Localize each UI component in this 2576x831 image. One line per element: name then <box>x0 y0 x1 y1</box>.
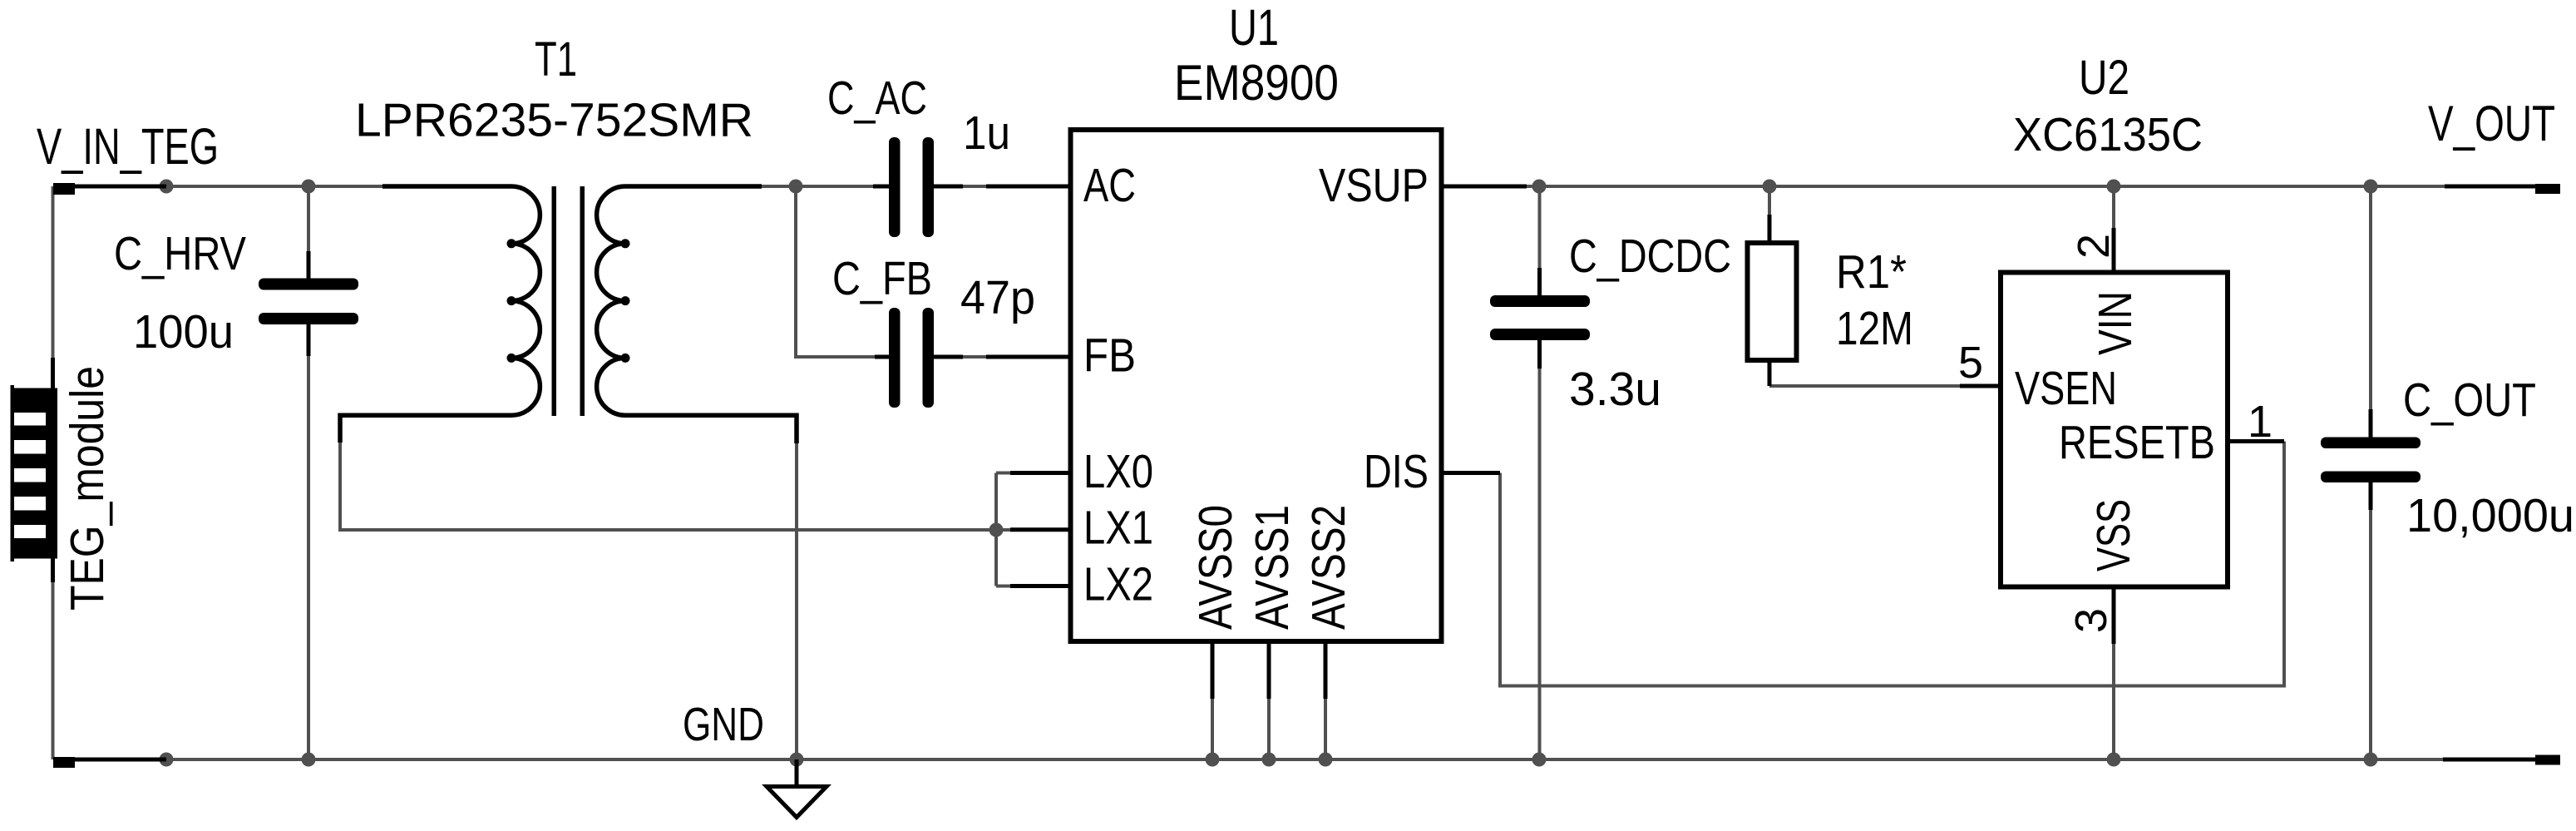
junction dots top rail <box>160 180 2378 194</box>
svg-text:FB: FB <box>1083 329 1136 383</box>
U2 pin VSEN, pin number 5 <box>1958 338 2117 415</box>
T1 primary winding <box>340 186 540 443</box>
U1 pin AC <box>986 159 1136 212</box>
wire: C_AC right lead gap <box>963 185 988 188</box>
wire: bottom rail GND net <box>166 758 2443 761</box>
label 1u <box>963 106 1010 160</box>
wire: T1 secondary bottom to GND rail <box>795 443 798 759</box>
svg-text:3.3u: 3.3u <box>1569 363 1661 416</box>
svg-text:C_DCDC: C_DCDC <box>1569 230 1731 283</box>
svg-text:T1: T1 <box>535 32 577 87</box>
svg-text:3: 3 <box>2066 608 2116 633</box>
svg-text:47p: 47p <box>960 271 1035 324</box>
wire: left vertical from V_IN_TEG to TEG module <box>52 186 55 759</box>
capacitor C_HRV <box>259 251 358 356</box>
U1 pin AVSS1 <box>1246 505 1299 699</box>
label T1 <box>535 32 577 87</box>
label TEG_module <box>61 366 114 611</box>
wire: VIN vertical from top rail <box>2112 186 2115 228</box>
wire: DIS to RESETB routing <box>1500 442 2284 686</box>
label XC6135C <box>2013 108 2203 161</box>
transformer T1 <box>340 186 797 443</box>
label C_DCDC <box>1569 230 1731 283</box>
label U2 <box>2079 51 2129 105</box>
svg-text:100u: 100u <box>133 305 234 359</box>
wire: AVSS0 AVSS1 AVSS2 to GND rail <box>1212 699 1325 759</box>
TEG module PS1 symbol <box>11 358 58 582</box>
wire: C_OUT vertical <box>2369 186 2372 759</box>
svg-text:LX0: LX0 <box>1083 445 1153 498</box>
wire: node AC coupling, top junction down to FB <box>796 186 988 357</box>
capacitor C_OUT <box>2321 409 2421 510</box>
svg-text:C_HRV: C_HRV <box>114 227 246 280</box>
svg-text:2: 2 <box>2069 234 2119 259</box>
U1 pin AVSS0 <box>1189 505 1242 699</box>
wire: R1 top lead <box>1768 186 1771 216</box>
wire: T1 primary bottom to LX bus <box>340 443 996 530</box>
voltage detector U2 body <box>2001 273 2228 587</box>
label C_OUT <box>2403 373 2536 427</box>
junction dot LX bus <box>989 523 1004 537</box>
svg-text:R1*: R1* <box>1836 245 1907 299</box>
U2 pin VSS, pin number 3 <box>2066 499 2140 644</box>
label GND <box>683 698 764 751</box>
capacitor C_AC <box>873 137 963 237</box>
label EM8900 <box>1174 55 1339 111</box>
T1 secondary winding <box>597 186 797 443</box>
label U1 <box>1229 0 1279 56</box>
U2 pin RESETB, pin number 1 <box>2059 397 2284 469</box>
wire: LX0-LX1-LX2 bus <box>996 473 1012 586</box>
label 12M <box>1836 302 1913 355</box>
T1 core <box>552 186 585 416</box>
svg-text:U2: U2 <box>2079 51 2129 105</box>
label 100u <box>133 305 234 359</box>
capacitor C_FB <box>875 308 963 408</box>
wire: R1 bottom to VSEN <box>1769 384 1960 388</box>
wire: C_DCDC vertical <box>1538 186 1542 759</box>
U1 pin LX0 <box>1010 445 1153 498</box>
svg-text:TEG_module: TEG_module <box>61 366 114 611</box>
label V_IN_TEG <box>37 118 219 175</box>
svg-text:XC6135C: XC6135C <box>2013 108 2203 161</box>
op-amp U1 body <box>1071 130 1442 641</box>
label 47p <box>960 271 1035 324</box>
svg-text:10,000u: 10,000u <box>2406 489 2574 542</box>
svg-text:GND: GND <box>683 698 764 751</box>
label C_HRV <box>114 227 246 280</box>
U1 pin LX2 <box>1010 558 1153 611</box>
svg-text:12M: 12M <box>1836 302 1913 355</box>
U1 pin AVSS2 <box>1302 505 1355 699</box>
svg-text:AC: AC <box>1083 159 1136 212</box>
svg-text:VSEN: VSEN <box>2015 362 2117 415</box>
svg-text:C_FB: C_FB <box>832 252 932 305</box>
svg-text:DIS: DIS <box>1364 445 1429 498</box>
svg-text:RESETB: RESETB <box>2059 416 2215 469</box>
U2 pin VIN, pin number 2 <box>2069 228 2142 355</box>
svg-text:U1: U1 <box>1229 0 1279 56</box>
junction dots bottom rail <box>160 753 2378 767</box>
label 10,000u <box>2406 489 2574 542</box>
wire: C_HRV vertical <box>307 186 310 759</box>
node V_OUT: right end bar <box>2443 184 2560 765</box>
resistor R1 <box>1748 215 1797 386</box>
ground symbol <box>767 759 827 818</box>
svg-text:VSS: VSS <box>2087 499 2140 571</box>
U1 pin FB <box>986 329 1136 383</box>
label LPR6235-752SMR <box>355 94 753 147</box>
svg-text:V_OUT: V_OUT <box>2428 96 2555 151</box>
label R1* <box>1836 245 1907 299</box>
svg-text:LX2: LX2 <box>1083 558 1153 611</box>
wire: VSS to GND rail <box>2112 644 2115 759</box>
U1 pin DIS <box>1364 445 1500 498</box>
node V_IN_TEG: left end bars and black leads <box>53 183 166 768</box>
svg-text:C_AC: C_AC <box>827 72 927 125</box>
svg-text:VIN: VIN <box>2089 291 2142 355</box>
U1 pin LX1 <box>1010 502 1153 555</box>
svg-text:VSUP: VSUP <box>1319 159 1429 212</box>
svg-text:AVSS2: AVSS2 <box>1302 505 1355 630</box>
wire: VSUP to V_OUT top rail <box>1527 185 2445 188</box>
label C_FB <box>832 252 932 305</box>
svg-text:EM8900: EM8900 <box>1174 55 1339 111</box>
svg-text:5: 5 <box>1958 338 1983 388</box>
svg-text:LX1: LX1 <box>1083 502 1153 555</box>
wire: top rail V_IN_TEG net <box>166 185 873 188</box>
svg-text:1u: 1u <box>963 106 1010 160</box>
svg-text:LPR6235-752SMR: LPR6235-752SMR <box>355 94 753 147</box>
label 3.3u <box>1569 363 1661 416</box>
svg-text:1: 1 <box>2248 397 2273 447</box>
label V_OUT <box>2428 96 2555 151</box>
label C_AC <box>827 72 927 125</box>
svg-text:V_IN_TEG: V_IN_TEG <box>37 118 219 175</box>
svg-text:C_OUT: C_OUT <box>2403 373 2536 427</box>
svg-text:AVSS1: AVSS1 <box>1246 505 1299 630</box>
capacitor C_DCDC <box>1490 268 1590 369</box>
svg-text:AVSS0: AVSS0 <box>1189 505 1242 630</box>
U1 pin VSUP <box>1319 159 1527 212</box>
